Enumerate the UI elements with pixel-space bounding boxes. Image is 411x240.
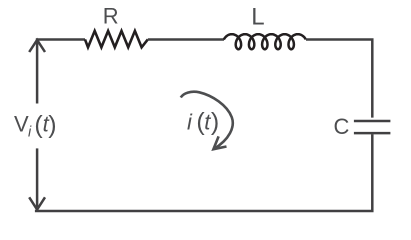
wire from capacitor to bottom-right corner and bottom wire [35,134,372,211]
capacitor C bottom plate [354,132,391,135]
capacitor C top plate [354,120,391,123]
inductor L coil [224,34,306,49]
loop current arrow arc [181,92,233,149]
svg-text:): ) [211,108,219,136]
svg-text:V: V [14,111,29,136]
svg-text:): ) [48,111,56,139]
svg-text:C: C [334,114,350,139]
voltage arrow down [29,148,45,209]
svg-text:i: i [28,125,32,141]
wire between resistor and inductor [148,38,224,41]
svg-text:R: R [103,3,119,28]
voltage arrow up [29,40,45,104]
wire from inductor to top-right corner down to capacitor [306,40,372,118]
wire top-left segment [36,38,85,41]
svg-text:L: L [251,3,264,30]
loop arrowhead [213,136,226,149]
svg-text:i: i [187,109,193,134]
resistor R zigzag [85,31,148,47]
